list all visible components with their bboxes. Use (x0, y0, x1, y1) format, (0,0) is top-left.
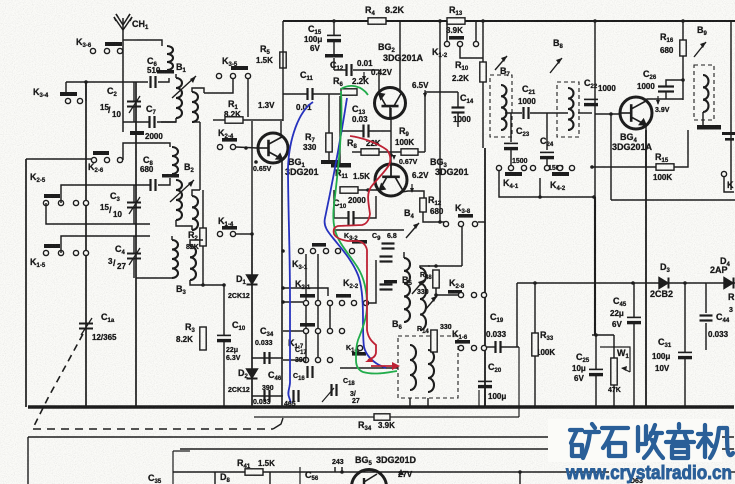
wire C34 row (252, 357, 283, 359)
wire (236, 233, 252, 235)
capacitor C34 (265, 352, 270, 364)
ground R7 (321, 160, 338, 164)
wire (534, 283, 536, 333)
wire (283, 93, 308, 95)
capacitor C31 (678, 352, 692, 357)
wire C3 row (61, 185, 150, 203)
diode D3 (659, 278, 669, 289)
wire rail x283 (282, 21, 284, 121)
wire (369, 260, 376, 303)
capacitor C16 (294, 390, 299, 402)
wire R9 right up (424, 92, 426, 152)
switch K1-6 row small (352, 352, 366, 356)
inductor B5 right (420, 268, 426, 330)
resistor R4 (368, 18, 386, 24)
transformer B9 dashed box (694, 65, 714, 120)
transformer B8 dashed box (557, 82, 579, 137)
wire right rail y200 (611, 199, 735, 201)
arrow 3.9V (657, 96, 659, 104)
wire C7 row (123, 121, 149, 123)
wire (85, 82, 87, 101)
wire (213, 119, 225, 121)
resistor R48 (433, 270, 439, 288)
core arrow B7 (495, 56, 507, 70)
watermark backing (548, 419, 722, 462)
wire (457, 113, 459, 127)
wire (247, 79, 249, 117)
wire C2 bottom (133, 107, 135, 122)
inductor B1 secondary left (176, 78, 182, 118)
switch contact right (721, 171, 726, 176)
wire (595, 375, 597, 407)
junction (631, 281, 635, 285)
wire (546, 159, 548, 168)
wire (123, 143, 136, 160)
antenna CH1 (114, 14, 132, 132)
wire rail x86 (85, 82, 87, 407)
svg-text:www.crystalradio.cn: www.crystalradio.cn (565, 462, 732, 484)
wire (510, 150, 512, 165)
variable capacitor C2 (127, 96, 141, 113)
transistor BG3 (375, 163, 407, 196)
wire rail x252 (251, 234, 253, 407)
wire lower horizontal (254, 416, 519, 418)
ground bar center (331, 163, 351, 168)
wire (633, 283, 635, 317)
switch K2-1 K2-2 row (300, 294, 315, 298)
resistor R12 (420, 198, 426, 212)
wire bottom circuit rail right (729, 471, 735, 473)
wire (379, 151, 401, 153)
capacitor C20 (478, 381, 492, 386)
switch K3-6 (105, 42, 122, 46)
wire (420, 266, 430, 268)
resistor R14 (431, 330, 437, 352)
arrow 27V (398, 469, 404, 475)
wire (501, 346, 519, 348)
wire (613, 385, 615, 407)
capacitor C6 (151, 76, 156, 88)
wire B1 bottom (161, 118, 176, 122)
wire (487, 346, 495, 348)
diode D1 (247, 275, 258, 285)
switch K1-2 (449, 36, 464, 40)
inductor B6 left (410, 345, 416, 390)
switch K1-4 (222, 226, 237, 230)
junction (281, 286, 285, 290)
char shi (602, 428, 628, 448)
wire K2 link (283, 288, 328, 296)
junction (533, 281, 537, 285)
wire (369, 130, 391, 132)
inductor B9 (703, 75, 709, 112)
wire (482, 82, 484, 148)
wire (665, 92, 667, 99)
red segment right (371, 365, 397, 367)
wire matrix stub (317, 254, 319, 300)
switch K3-8 (458, 214, 473, 218)
wire bottom box left (27, 437, 29, 484)
switch K1-6b (455, 340, 470, 344)
wire C4 row (61, 236, 150, 253)
inductor B6 right (428, 350, 434, 392)
wire (633, 323, 635, 407)
wire (334, 69, 346, 71)
wire (192, 121, 200, 123)
junction (593, 19, 597, 23)
char ji (698, 425, 712, 457)
wire (595, 335, 597, 369)
diode D4 (724, 278, 734, 289)
wire (157, 121, 176, 123)
capacitor C24 (540, 152, 554, 157)
switch K2-5 (44, 194, 60, 198)
switch K1-5 (44, 244, 60, 248)
core arrow B5 (412, 280, 424, 294)
red trace (334, 136, 391, 360)
junction (201, 283, 205, 287)
wire matrix stub (305, 305, 307, 328)
wire (192, 190, 200, 196)
wire C2 top (133, 82, 135, 101)
capacitor C17 (308, 366, 313, 378)
char kuang (570, 430, 582, 456)
wire (682, 56, 684, 100)
wire R6 left down (339, 96, 341, 163)
junction (594, 333, 598, 337)
resistor R33 (532, 333, 538, 356)
switch K3-4 (60, 92, 77, 96)
junction (590, 165, 594, 169)
transistor BG2 (375, 88, 406, 120)
wire (446, 21, 448, 41)
junction (84, 80, 88, 84)
wire B6 to bus (409, 398, 411, 407)
junction (389, 153, 393, 157)
wire C3 bottom row (46, 203, 150, 224)
wire matrix stub (305, 334, 307, 357)
wire to B1 top (137, 40, 162, 46)
wire (136, 277, 172, 279)
wire (133, 236, 135, 253)
wire matrix stub (305, 254, 307, 300)
switch K2-8 (448, 290, 462, 294)
capacitor C9b (380, 257, 393, 262)
bar left of 2000 (130, 131, 144, 135)
inductor B3 left (172, 240, 178, 278)
capacitor C10b (349, 211, 354, 225)
wire rail x646 (645, 130, 647, 407)
wire (190, 240, 203, 246)
wire stub (269, 472, 271, 484)
wire (682, 21, 684, 40)
wire (328, 152, 330, 160)
wire R48 bottom (436, 288, 458, 295)
resistor R15 (656, 164, 674, 170)
wire (353, 69, 379, 71)
inductor B7 (501, 85, 507, 130)
capacitor C10 (217, 335, 231, 340)
wire C6 to B1 (158, 78, 169, 82)
core arrow B1 (172, 76, 196, 98)
switch K4-1 (496, 165, 501, 170)
core arrow B2 (170, 180, 194, 202)
junction (222, 283, 226, 287)
wire B1 sec to B2 (199, 122, 201, 190)
variable capacitor C3 (127, 197, 141, 214)
wire K3-8 to rail (478, 221, 485, 223)
wire (418, 151, 425, 153)
wire B8 to rail (578, 112, 592, 114)
junction (281, 249, 285, 253)
resistor R10 (480, 62, 486, 82)
wiper arrow W1 (622, 368, 630, 372)
wire rail x252 upper (251, 121, 253, 234)
wire (192, 88, 204, 93)
junction (681, 78, 685, 82)
wire (283, 301, 303, 303)
wire (592, 166, 656, 168)
wire K3-8 down (461, 227, 463, 266)
switch K3-5 (231, 66, 248, 70)
wire (457, 92, 459, 107)
wire (283, 330, 303, 332)
capacitor C18 (332, 384, 337, 396)
transistor BG4 (619, 97, 652, 129)
wire (171, 236, 173, 240)
capacitor C13 (364, 125, 369, 138)
wire BG1 emitter rail (281, 159, 283, 407)
dashed link line (33, 428, 273, 430)
wire (674, 130, 688, 167)
capacitor C15 (327, 35, 341, 40)
wire (328, 94, 330, 133)
wire BG2 emitter up (378, 70, 380, 94)
wire (133, 259, 135, 278)
wire rail x440 (439, 21, 441, 222)
core bar B1 (157, 70, 174, 74)
wire C10 bottom (223, 341, 225, 407)
wire rail x485 (484, 148, 486, 407)
inductor B2 secondary right (192, 196, 198, 230)
transistor BG5 (352, 470, 387, 484)
box bottom left (172, 451, 174, 484)
switch K1-7 row (300, 323, 315, 327)
wire K2-6 row (26, 158, 91, 160)
diode D2 (247, 369, 258, 379)
arrow 0.42V (363, 72, 365, 80)
wire (403, 252, 405, 258)
resistor R11 (340, 187, 358, 193)
wire left rail x26 (25, 159, 27, 407)
wire matrix stub (317, 334, 319, 357)
wire to BG1 base (236, 147, 257, 148)
resistor W1 (611, 358, 617, 385)
green trace hook (341, 86, 368, 95)
capacitor C11 (308, 88, 313, 100)
core arrow B4 (406, 223, 419, 238)
wire (65, 82, 67, 92)
wire (613, 335, 615, 358)
resistor R7 (326, 133, 332, 152)
wire (334, 217, 348, 219)
junction (518, 470, 522, 474)
wire (243, 119, 283, 121)
arrow 6.2V (411, 184, 413, 192)
resistor R9 (401, 149, 418, 155)
wire top supply rail (283, 20, 735, 22)
capacitor C12 (347, 64, 352, 76)
wire BG4 base (595, 113, 620, 115)
green trace (333, 91, 397, 374)
core arrow B6 (425, 296, 437, 310)
capacitor stack (380, 285, 393, 290)
wire (313, 93, 341, 95)
resistor R5 (280, 52, 286, 68)
resistor R13 (447, 18, 465, 24)
red arrowhead left (365, 357, 373, 362)
wire (333, 58, 335, 70)
junction (434, 264, 438, 268)
core arrow B9 (694, 42, 706, 57)
wire (705, 283, 707, 313)
junction (681, 19, 685, 23)
switch K2-4 (222, 138, 237, 142)
wire bottom border 2 (180, 448, 734, 450)
variable capacitor C4 (127, 248, 141, 265)
wire (510, 113, 512, 142)
arrow 0.67V (392, 155, 396, 160)
resistor R6 (341, 89, 357, 95)
wire (133, 185, 135, 202)
wire (158, 178, 170, 185)
wire (202, 246, 204, 285)
variable capacitor C1a (79, 318, 93, 335)
wire C10 top (223, 285, 225, 335)
ground B9 (697, 125, 721, 130)
capacitor C21 (524, 107, 529, 119)
wire (534, 356, 536, 407)
wire (684, 358, 686, 407)
wire right edge rail (730, 21, 732, 190)
wire (516, 283, 518, 347)
wire K4 bottom (499, 171, 594, 197)
wire (283, 359, 303, 361)
core bar B5 (384, 280, 397, 283)
capacitor C8 (151, 179, 156, 191)
inductor B2 primary (172, 147, 178, 174)
red arrowhead right (392, 362, 400, 370)
capacitor C23 (504, 143, 518, 148)
wire rail x595 upper (594, 21, 596, 197)
junction (481, 19, 485, 23)
resistor R3 (200, 327, 206, 350)
wire (333, 21, 335, 35)
scan noise texture (0, 0, 1, 1)
wire (724, 177, 734, 192)
inductor B5 left (404, 258, 410, 322)
capacitor C14 (452, 108, 465, 113)
capacitor C46 (265, 390, 270, 402)
wire rail x136 (135, 82, 137, 407)
resistor R8 (361, 149, 379, 155)
wire BG3 emitter to R12 (402, 191, 424, 198)
arrow 6.5V (424, 90, 426, 97)
junction (538, 195, 542, 199)
wire long y283 (517, 282, 735, 284)
switch K4-2 (544, 165, 549, 170)
char yin (666, 424, 694, 442)
wire stub (214, 472, 216, 484)
wire (505, 112, 522, 114)
capacitor C45 (627, 317, 641, 322)
inductor B8 (568, 88, 574, 130)
wire (666, 80, 683, 86)
wire matrix stub (317, 305, 319, 328)
watermark 矿石收音机 as vector strokes (570, 424, 733, 458)
core arrow B8 (550, 58, 562, 73)
transformer B7 dashed box (490, 75, 512, 137)
wire R48 top (428, 265, 462, 267)
wire into B6 (340, 367, 398, 369)
inductor B2 secondary left (176, 180, 182, 220)
wire (202, 190, 204, 228)
wire (705, 323, 707, 350)
capacitor C7 (150, 116, 155, 128)
transistor BG1 (257, 133, 288, 163)
wire (475, 21, 477, 41)
wire antenna row (123, 39, 137, 41)
resistor R1 (225, 117, 243, 123)
junction (250, 232, 254, 236)
wire BG1 collector (280, 121, 282, 136)
wire (530, 112, 568, 114)
wire y82 (66, 81, 148, 83)
junction (438, 19, 442, 23)
wire (190, 280, 224, 285)
core bar B2 (162, 174, 179, 178)
capacitor C22 (584, 99, 598, 104)
wire BG2 collector up (399, 21, 401, 93)
wire R12 down (423, 212, 446, 222)
wire bottom border 1 (28, 436, 734, 438)
inductor B1 secondary right (192, 92, 198, 122)
wire (546, 113, 548, 150)
wire bottom circuit rail (173, 471, 609, 473)
arrow C18 (322, 388, 334, 402)
wire (610, 114, 612, 200)
resistor R34 (374, 414, 390, 420)
wire thick ground bus (28, 405, 734, 408)
wire y230 (334, 229, 404, 231)
capacitor C26 (658, 87, 674, 92)
wire (460, 47, 483, 58)
switch K3-2 bar (352, 240, 367, 244)
wire (482, 21, 484, 62)
box C56 (299, 467, 301, 484)
transformer B6 dashed box (398, 336, 458, 398)
junction (592, 195, 596, 199)
blue trace left loop (288, 102, 313, 403)
junction (683, 281, 687, 285)
wire BG4 collector (646, 99, 683, 102)
junction (366, 188, 370, 192)
wire (133, 208, 135, 224)
box lines C20 (478, 390, 480, 407)
ground C15 (325, 54, 343, 58)
junction (609, 112, 613, 116)
wire (354, 196, 376, 218)
